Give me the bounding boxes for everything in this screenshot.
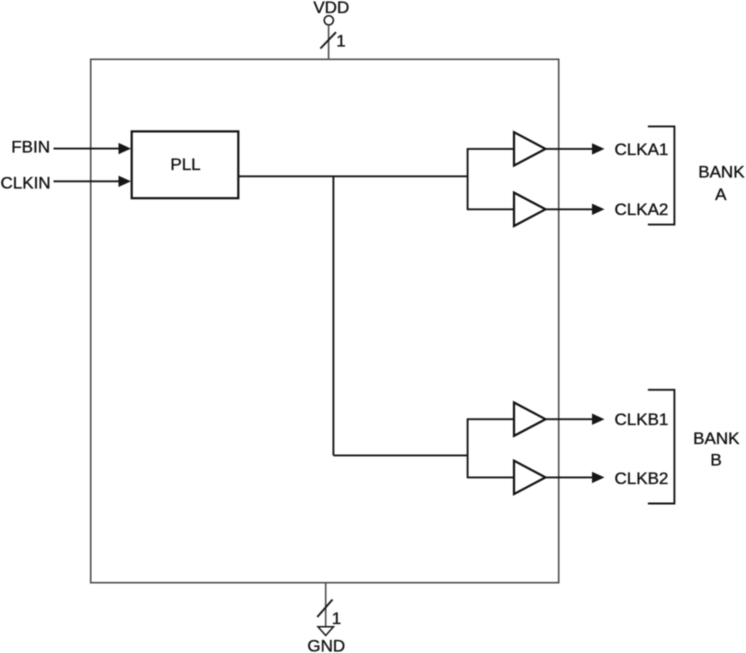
wire buffer A1 output xyxy=(546,148,595,150)
wire FBIN input xyxy=(54,148,122,150)
wire branch to buffer A1 xyxy=(467,148,514,150)
svg-text:CLKA2: CLKA2 xyxy=(615,200,669,219)
bus slash on GND wire xyxy=(317,600,332,618)
svg-text:BANK: BANK xyxy=(698,163,745,182)
bus slash on VDD wire xyxy=(320,32,336,48)
wire center vertical trunk xyxy=(332,176,334,455)
svg-text:CLKB2: CLKB2 xyxy=(615,469,669,488)
BANK B label xyxy=(693,429,740,469)
wire box bottom to GND xyxy=(325,583,327,627)
arrowhead CLKB1 xyxy=(592,414,605,425)
arrowhead CLKA2 xyxy=(592,204,605,215)
arrowhead CLKIN at PLL pin xyxy=(119,176,132,187)
bank B bracket xyxy=(648,390,675,504)
svg-text:PLL: PLL xyxy=(170,155,200,174)
arrowhead CLKB2 xyxy=(592,472,605,483)
svg-text:CLKB1: CLKB1 xyxy=(615,410,669,429)
svg-text:B: B xyxy=(710,451,721,470)
wire buffer B1 output xyxy=(546,418,595,420)
svg-text:VDD: VDD xyxy=(313,0,349,17)
svg-text:1: 1 xyxy=(336,31,345,50)
buffer A2 xyxy=(514,193,546,226)
svg-text:CLKA1: CLKA1 xyxy=(615,140,669,159)
svg-text:BANK: BANK xyxy=(693,429,740,448)
outer block boundary xyxy=(91,59,559,582)
VDD terminal circle xyxy=(324,16,333,25)
wire buffer A2 output xyxy=(546,208,595,210)
wire branch to buffer B2 xyxy=(467,476,514,478)
arrowhead FBIN at PLL pin xyxy=(119,143,132,154)
svg-text:CLKIN: CLKIN xyxy=(1,174,51,193)
wire bank B branch vertical xyxy=(467,419,469,477)
wire CLKIN input xyxy=(54,180,122,182)
wire branch to buffer B1 xyxy=(467,418,514,420)
wire VDD to box top xyxy=(328,25,330,59)
wire bank A branch vertical xyxy=(467,149,469,209)
PLL block U1 xyxy=(132,131,239,198)
svg-text:A: A xyxy=(715,185,727,204)
buffer A1 xyxy=(514,132,546,165)
BANK A label xyxy=(698,163,745,205)
GND terminal arrow (open) xyxy=(318,627,334,636)
svg-text:GND: GND xyxy=(307,637,345,653)
wire branch to buffer A2 xyxy=(467,208,514,210)
arrowhead CLKA1 xyxy=(592,143,605,154)
svg-text:FBIN: FBIN xyxy=(11,138,50,157)
wire buffer B2 output xyxy=(546,476,595,478)
buffer B1 xyxy=(514,403,546,436)
svg-text:1: 1 xyxy=(332,609,341,628)
wire PLL output horizontal xyxy=(238,175,468,177)
buffer B2 xyxy=(514,461,546,494)
bank A bracket xyxy=(648,126,675,224)
wire trunk to bank B branch xyxy=(333,454,468,456)
